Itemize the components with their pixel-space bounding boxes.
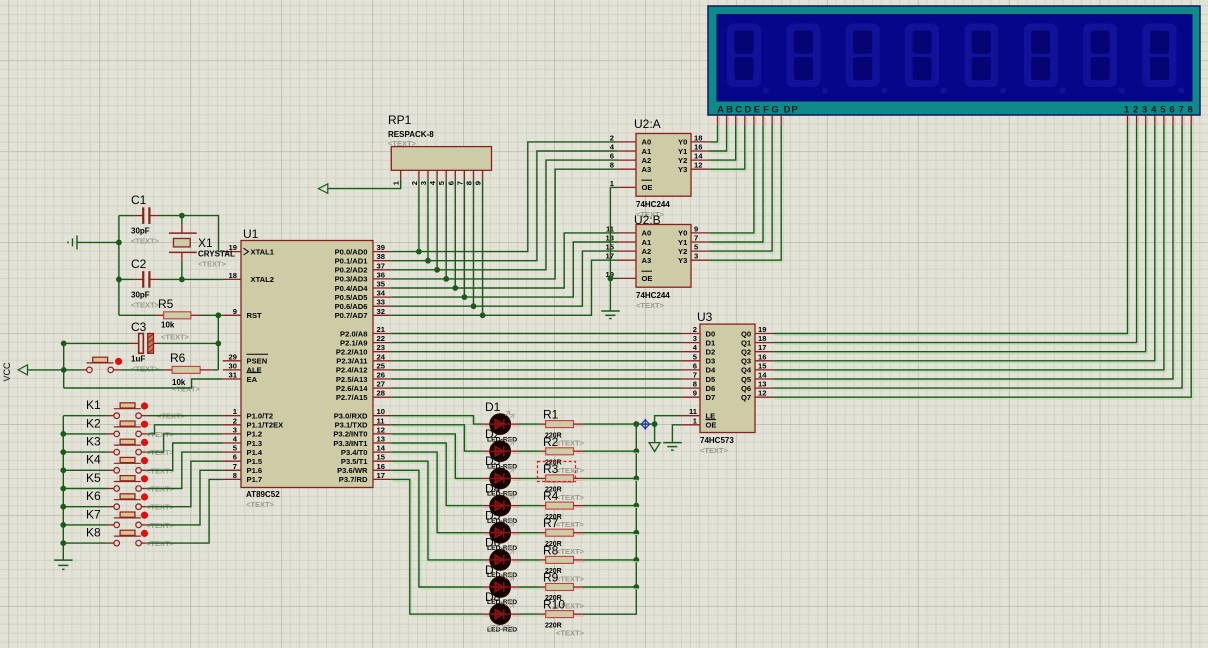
wire D3 to R3 [521, 479, 548, 481]
svg-text:12: 12 [377, 425, 385, 434]
wire RP1 pin 9 to P0.7 [480, 179, 486, 318]
svg-text:14: 14 [694, 152, 703, 161]
svg-text:2: 2 [610, 133, 614, 142]
svg-text:ALE: ALE [247, 366, 262, 375]
wire U3 Q0 to display digit 1 [775, 126, 1129, 335]
wire K4 to P1.3 [147, 443, 222, 470]
svg-text:P2.2/A10: P2.2/A10 [336, 348, 368, 357]
wire U2:B Y2 to display G [711, 126, 774, 253]
svg-text:26: 26 [377, 371, 385, 380]
capacitor C1 [119, 193, 182, 224]
button K5 [63, 471, 148, 491]
crystal X1 [169, 216, 213, 280]
svg-text:K5: K5 [86, 471, 101, 485]
svg-text:P2.5/A13: P2.5/A13 [336, 375, 368, 384]
svg-text:K7: K7 [86, 507, 101, 521]
svg-text:R10: R10 [543, 598, 565, 612]
svg-text:A3: A3 [642, 256, 652, 265]
resistor R1 220R [540, 408, 585, 428]
wire P0.6 net [391, 251, 618, 306]
svg-text:Y0: Y0 [678, 229, 687, 238]
svg-text:<TEXT>: <TEXT> [556, 466, 585, 475]
ground symbol below K8 [54, 560, 73, 569]
wire R7 to bus [585, 534, 639, 536]
wire K8 to P1.7 [147, 479, 222, 543]
svg-text:RP1: RP1 [388, 113, 412, 127]
svg-text:7: 7 [233, 462, 237, 471]
svg-text:K3: K3 [86, 435, 101, 449]
svg-text:D0: D0 [706, 329, 716, 338]
wire RP1 pin 5 to P0.3 [443, 179, 449, 281]
svg-text:1uF: 1uF [131, 355, 145, 364]
svg-text:D3: D3 [706, 357, 716, 366]
wire U3 LE to node [652, 416, 682, 427]
svg-text:C1: C1 [131, 193, 147, 207]
svg-text:8: 8 [233, 471, 237, 480]
button K1 [63, 398, 148, 418]
svg-text:30: 30 [229, 361, 237, 370]
svg-text:P3.2/INT0: P3.2/INT0 [333, 430, 367, 439]
svg-text:PSEN: PSEN [247, 357, 268, 366]
svg-text:18: 18 [758, 334, 766, 343]
wire D6 to R8 [521, 561, 548, 563]
svg-text:R8: R8 [543, 543, 559, 557]
buffer U2:B 74HC244 [634, 213, 691, 287]
svg-text:OE: OE [706, 421, 717, 430]
wire K7 to P1.6 [147, 470, 222, 525]
wire node to arrow ground [654, 424, 656, 443]
svg-text:21: 21 [377, 325, 386, 334]
display segment labels ABCDEFG DP [717, 105, 798, 116]
display digit labels 12345678 [1124, 105, 1193, 116]
svg-text:C2: C2 [131, 257, 147, 271]
wire K2 to P1.1 [147, 425, 222, 434]
U1 right pin labels [333, 247, 368, 484]
svg-text:P1.5: P1.5 [247, 457, 263, 466]
led D5 LED-RED [483, 509, 521, 544]
wire RP1 pin 7 to P0.5 [462, 179, 468, 300]
svg-text:Y3: Y3 [678, 165, 687, 174]
svg-text:<TEXT>: <TEXT> [636, 301, 665, 310]
svg-text:P1.2: P1.2 [247, 430, 263, 439]
svg-text:25: 25 [377, 361, 386, 370]
svg-text:15: 15 [758, 361, 767, 370]
svg-text:Y1: Y1 [678, 147, 688, 156]
ground symbol below U2:B [601, 311, 620, 319]
capacitor C2 [119, 257, 182, 288]
svg-text:<TEXT>: <TEXT> [388, 139, 417, 148]
svg-text:G: G [771, 105, 778, 116]
node C2-X1 junction [179, 277, 185, 283]
svg-text:VCC: VCC [2, 362, 12, 382]
button K6 [63, 489, 148, 509]
svg-text:R7: R7 [543, 516, 559, 530]
svg-text:U3: U3 [697, 310, 713, 324]
wire P0.2 net [391, 160, 618, 270]
U1 pin stubs and numbers [223, 243, 391, 480]
wire C1 to XTAL1 [182, 216, 223, 252]
svg-text:OE: OE [642, 274, 653, 283]
svg-text:OE: OE [642, 183, 653, 192]
svg-text:D2: D2 [706, 348, 716, 357]
svg-text:K4: K4 [86, 453, 101, 467]
wire U3 Q5 to display digit 6 [775, 126, 1175, 381]
svg-text:Y3: Y3 [678, 256, 687, 265]
svg-text:7: 7 [694, 234, 698, 243]
svg-text:R5: R5 [158, 297, 174, 311]
led D4 LED-RED [483, 481, 521, 516]
svg-text:P3.3/INT1: P3.3/INT1 [333, 439, 368, 448]
svg-text:AT89C52: AT89C52 [246, 490, 280, 499]
svg-text:6: 6 [446, 181, 455, 185]
wire C2 to XTAL2 [182, 278, 223, 280]
svg-text:Q4: Q4 [741, 366, 752, 375]
U2:A pin stubs and numbers [610, 133, 709, 188]
svg-text:3: 3 [233, 425, 237, 434]
wire D8 to R10 [521, 615, 548, 617]
U1 left pin labels [244, 247, 284, 484]
button K8 [63, 526, 148, 546]
wire left vcc bus [61, 341, 67, 389]
svg-text:U2:A: U2:A [634, 117, 661, 131]
svg-text:74HC573: 74HC573 [700, 436, 734, 445]
svg-text:CRYSTAL: CRYSTAL [198, 250, 235, 259]
arrow ground below LE node [649, 443, 660, 452]
svg-text:<TEXT>: <TEXT> [131, 237, 160, 246]
svg-text:F: F [763, 105, 769, 116]
wire U3 Q1 to display digit 2 [775, 126, 1138, 344]
svg-text:36: 36 [377, 270, 385, 279]
svg-text:17: 17 [377, 471, 385, 480]
svg-text:16: 16 [758, 352, 766, 361]
svg-text:<TEXT>: <TEXT> [246, 500, 275, 509]
wire P3.7 to D8 [393, 481, 485, 616]
svg-text:P0.2/AD2: P0.2/AD2 [335, 266, 368, 275]
svg-text:<TEXT>: <TEXT> [556, 629, 585, 638]
wire U2:A Y0 to display A [711, 126, 719, 144]
svg-text:P3.5/T1: P3.5/T1 [341, 457, 368, 466]
svg-text:<TEXT>: <TEXT> [198, 260, 227, 269]
svg-text:16: 16 [694, 143, 702, 152]
wire U3 Q4 to display digit 5 [775, 126, 1166, 372]
svg-text:P1.4: P1.4 [247, 448, 263, 457]
svg-text:31: 31 [229, 371, 238, 380]
resistor R2 220R [540, 435, 585, 455]
wire K5 to P1.4 [147, 452, 222, 488]
wire P0.3 net [391, 169, 618, 279]
svg-text:23: 23 [377, 343, 385, 352]
svg-text:9: 9 [474, 181, 483, 185]
wire D5 to R7 [521, 534, 548, 536]
svg-text:C3: C3 [131, 320, 147, 334]
wire R8 to bus [585, 561, 639, 563]
button K2 [63, 416, 148, 436]
svg-text:18: 18 [229, 271, 237, 280]
svg-text:13: 13 [377, 435, 385, 444]
svg-text:6: 6 [693, 361, 697, 370]
svg-text:D7: D7 [706, 393, 716, 402]
power terminal VCC left [2, 362, 64, 382]
svg-text:P3.1/TXD: P3.1/TXD [335, 421, 368, 430]
wire P3.0 to D1 [393, 418, 485, 426]
display module DS1 8-digit 7-segment [708, 6, 1200, 115]
svg-text:P1.6: P1.6 [247, 466, 263, 475]
wire P3.4 to D5 [393, 454, 485, 535]
selection box around R3 [538, 462, 576, 482]
svg-text:Q5: Q5 [741, 375, 752, 384]
svg-text:Y1: Y1 [678, 238, 688, 247]
wire RP1 pin 8 to P0.6 [471, 179, 477, 309]
reset button [64, 357, 164, 373]
wire U3 Q2 to display digit 3 [775, 126, 1148, 354]
svg-text:D6: D6 [706, 384, 716, 393]
svg-text:16: 16 [377, 462, 385, 471]
wire ground to bus [77, 241, 119, 243]
wire vcc bus to EA [64, 379, 223, 388]
wire LED cathode bus [583, 421, 640, 614]
svg-text:Y0: Y0 [678, 138, 687, 147]
wire U3 Q7 to display digit 8 [775, 126, 1193, 399]
wire K3 to P1.2 [147, 434, 222, 452]
U3 pin stubs and numbers [682, 325, 773, 425]
wire P0.4 net [391, 233, 618, 288]
svg-text:14: 14 [758, 371, 767, 380]
svg-text:11: 11 [689, 407, 698, 416]
svg-text:XTAL2: XTAL2 [251, 275, 275, 284]
svg-text:2: 2 [233, 416, 237, 425]
resistor R6 10k [164, 351, 219, 373]
svg-text:2: 2 [1133, 105, 1138, 116]
svg-text:D2: D2 [485, 427, 501, 441]
svg-text:28: 28 [377, 389, 385, 398]
svg-text:D8: D8 [485, 590, 501, 604]
svg-text:<TEXT>: <TEXT> [556, 493, 585, 502]
svg-text:3: 3 [1142, 105, 1147, 116]
svg-text:P0.1/AD1: P0.1/AD1 [335, 257, 369, 266]
svg-text:<TEXT>: <TEXT> [556, 547, 585, 556]
svg-text:3: 3 [693, 334, 697, 343]
svg-text:R1: R1 [543, 408, 559, 422]
svg-text:12: 12 [694, 161, 702, 170]
svg-text:30pF: 30pF [131, 291, 150, 300]
wire U2:A Y1 to display B [711, 126, 728, 153]
wire U2 OE to ground [608, 187, 618, 311]
resistor R7 220R [540, 516, 585, 536]
svg-text:D3: D3 [485, 454, 501, 468]
svg-text:R3: R3 [543, 462, 559, 476]
svg-text:19: 19 [758, 325, 766, 334]
svg-text:Y2: Y2 [678, 247, 687, 256]
svg-text:8: 8 [693, 380, 697, 389]
svg-text:A0: A0 [642, 229, 652, 238]
svg-text:7: 7 [693, 371, 697, 380]
svg-text:9: 9 [233, 307, 237, 316]
svg-text:P1.7: P1.7 [247, 475, 263, 484]
wire RP1 pin 2 to P0.0 [416, 179, 422, 254]
svg-text:7: 7 [455, 181, 464, 185]
svg-text:<TEXT>: <TEXT> [556, 574, 585, 583]
wire R1 to bus [585, 425, 639, 427]
buffer U2:A 74HC244 [634, 117, 691, 196]
svg-text:3: 3 [419, 181, 428, 185]
svg-text:P1.0/T2: P1.0/T2 [247, 412, 274, 421]
svg-text:Q0: Q0 [741, 329, 751, 338]
wire P2.4 to U3 D4 [391, 369, 682, 371]
svg-text:37: 37 [377, 261, 385, 270]
svg-text:<TEXT>: <TEXT> [487, 623, 516, 632]
wire R2 to bus [585, 452, 639, 454]
wire P3.3 to D4 [393, 445, 485, 508]
svg-text:D: D [744, 105, 751, 116]
svg-text:Y2: Y2 [678, 156, 687, 165]
svg-text:9: 9 [694, 224, 698, 233]
svg-text:P1.1/T2EX: P1.1/T2EX [247, 421, 284, 430]
svg-text:<TEXT>: <TEXT> [131, 301, 160, 310]
wire P3.1 to D2 [393, 427, 485, 453]
resistor R9 220R [540, 571, 585, 591]
svg-text:1: 1 [1124, 105, 1130, 116]
svg-text:Q3: Q3 [741, 357, 751, 366]
wire U3 Q3 to display digit 4 [775, 126, 1157, 363]
led D8 LED-RED [483, 590, 521, 625]
led D2 LED-RED [483, 427, 521, 462]
svg-text:D: D [784, 105, 791, 116]
wire D1 to R1 [521, 425, 548, 427]
svg-text:33: 33 [377, 298, 385, 307]
svg-text:Q1: Q1 [741, 338, 752, 347]
svg-text:P3.6/WR: P3.6/WR [337, 466, 368, 475]
node C1-X1 junction [179, 213, 185, 219]
ground symbol left of C1 [68, 235, 77, 249]
svg-text:R9: R9 [543, 571, 559, 585]
svg-text:P1.3: P1.3 [247, 439, 263, 448]
led D3 LED-RED [483, 454, 521, 489]
svg-text:<TEXT>: <TEXT> [700, 446, 729, 455]
button K4 [63, 453, 148, 473]
wire RP1 pin 4 to P0.2 [434, 179, 440, 272]
svg-text:K2: K2 [86, 416, 101, 430]
wire U2:B Y1 to display F [711, 126, 765, 244]
wire U2:B Y3 to display DP [711, 126, 783, 262]
svg-text:A1: A1 [642, 147, 652, 156]
svg-text:22: 22 [377, 334, 385, 343]
svg-text:15: 15 [377, 453, 386, 462]
ground symbol below U3 OE [663, 443, 682, 451]
svg-text:C: C [735, 105, 742, 116]
svg-text:74HC244: 74HC244 [636, 291, 670, 300]
svg-text:EA: EA [247, 375, 258, 384]
svg-text:<TEXT>: <TEXT> [161, 333, 190, 342]
svg-text:D1: D1 [706, 338, 716, 347]
svg-text:E: E [754, 105, 760, 116]
svg-text:R6: R6 [170, 351, 186, 365]
svg-text:2: 2 [410, 181, 419, 185]
wire P2.5 to U3 D5 [391, 378, 682, 380]
svg-text:R2: R2 [543, 435, 559, 449]
svg-text:P0.0/AD0: P0.0/AD0 [335, 247, 368, 256]
wire D4 to R4 [521, 506, 548, 508]
svg-text:24: 24 [377, 352, 386, 361]
wire RP1 pin 6 to P0.4 [452, 179, 458, 291]
svg-text:D6: D6 [485, 536, 501, 550]
svg-text:6: 6 [233, 453, 237, 462]
power terminal VCC at RP1 [318, 179, 400, 193]
latch U3 74HC573 [697, 310, 755, 433]
svg-text:A2: A2 [642, 247, 652, 256]
svg-text:34: 34 [377, 289, 386, 298]
svg-text:7: 7 [1178, 105, 1183, 116]
resistor R10 220R [540, 598, 585, 618]
svg-text:14: 14 [377, 444, 386, 453]
svg-text:P2.0/A8: P2.0/A8 [340, 329, 367, 338]
svg-text:K1: K1 [86, 398, 101, 412]
resistor R8 220R [540, 543, 585, 563]
wire P2.1 to U3 D1 [391, 342, 682, 344]
svg-text:P3.0/RXD: P3.0/RXD [334, 412, 368, 421]
wire P0.0 net [391, 142, 618, 252]
svg-text:K6: K6 [86, 489, 101, 503]
svg-text:39: 39 [377, 243, 385, 252]
wire R1 node to LE node [636, 423, 654, 425]
display pins [718, 115, 1194, 126]
svg-text:P3.7/RD: P3.7/RD [339, 475, 368, 484]
svg-text:R4: R4 [543, 489, 559, 503]
wire P2.2 to U3 D2 [391, 351, 682, 353]
svg-text:29: 29 [229, 352, 237, 361]
wire P3.2 to D3 [393, 436, 485, 481]
svg-text:17: 17 [758, 343, 766, 352]
svg-text:<TEXT>: <TEXT> [556, 439, 585, 448]
svg-text:10k: 10k [161, 321, 175, 330]
wire U2:B Y0 to display E [711, 126, 756, 235]
svg-text:38: 38 [377, 252, 385, 261]
svg-text:P0.6/AD6: P0.6/AD6 [335, 302, 368, 311]
wire U2:A Y2 to display C [711, 126, 738, 162]
svg-text:A1: A1 [642, 238, 652, 247]
svg-text:4: 4 [1151, 105, 1157, 116]
wire bus RST-C3-R6 [215, 312, 221, 370]
svg-text:3: 3 [694, 252, 698, 261]
svg-text:74HC244: 74HC244 [636, 200, 670, 209]
wire RP1 pin 3 to P0.1 [425, 179, 431, 263]
svg-text:P0.4/AD4: P0.4/AD4 [335, 284, 369, 293]
svg-text:D4: D4 [706, 366, 716, 375]
svg-text:P2.6/A14: P2.6/A14 [336, 384, 368, 393]
origin marker blue [640, 419, 651, 430]
svg-text:A3: A3 [642, 165, 652, 174]
junction R1 bus [633, 421, 639, 427]
svg-text:13: 13 [758, 380, 766, 389]
wire D7 to R9 [521, 588, 548, 590]
svg-text:A0: A0 [642, 138, 652, 147]
wire P3.5 to D6 [393, 463, 485, 562]
wire P0.1 net [391, 151, 618, 261]
svg-text:32: 32 [377, 307, 385, 316]
svg-text:5: 5 [1160, 105, 1166, 116]
wire P3.6 to D7 [393, 472, 485, 589]
svg-text:9: 9 [693, 389, 697, 398]
svg-text:P0.5/AD5: P0.5/AD5 [335, 293, 369, 302]
svg-text:XTAL1: XTAL1 [251, 247, 275, 256]
svg-text:P: P [791, 105, 798, 116]
svg-text:D5: D5 [485, 509, 501, 523]
wire P2.6 to U3 D6 [391, 387, 682, 389]
svg-text:8: 8 [610, 161, 614, 170]
svg-text:18: 18 [694, 133, 702, 142]
wire K button ground bus [60, 416, 66, 560]
wire P0.7 net [391, 260, 618, 315]
svg-text:27: 27 [377, 380, 385, 389]
